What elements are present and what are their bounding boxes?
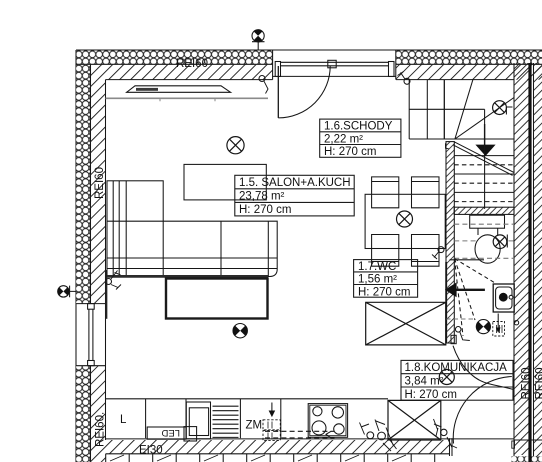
staircase: mid landing line — [409, 108, 484, 110]
entry door jamb lines — [450, 438, 453, 456]
washbasin outer rect — [493, 284, 514, 312]
svg-text:H: 270 cm: H: 270 cm — [405, 389, 457, 401]
kitchen dashed boxes — [263, 420, 280, 441]
washbasin inner bowl — [496, 287, 512, 309]
switch at left window — [106, 271, 122, 290]
staircase: direction arrow line — [484, 124, 486, 146]
small pipe circle on right wall — [514, 321, 518, 325]
svg-text:1,56 m²: 1,56 m² — [358, 274, 397, 286]
lamp WC — [493, 235, 507, 249]
wall right: outer hatch strip — [534, 63, 542, 462]
staircase: winder diagonal 1 — [455, 80, 473, 139]
kitchen divider 1 — [145, 399, 147, 438]
junction point symbol top — [252, 30, 265, 51]
switch at balcony door left jamb — [259, 76, 268, 94]
wall bottom: brick row top line — [106, 453, 450, 455]
staircase: lower flight center line — [484, 139, 486, 209]
balcony window: left jamb block — [275, 62, 280, 77]
svg-text:1.8.KOMUNIKACJA: 1.8.KOMUNIKACJA — [405, 362, 508, 374]
sofa body outline with rounded corner — [107, 221, 277, 276]
wall bottom: top edge line — [106, 438, 515, 440]
left window: top mullion block — [88, 304, 95, 310]
radiator dark strip — [136, 88, 158, 91]
wall left: hatch band upper — [91, 80, 106, 304]
dining chair bottom-right — [412, 235, 440, 267]
dining table — [365, 194, 445, 248]
wall right: outer hatch strip edge — [533, 63, 535, 462]
wall top: bubble/hatch separator line — [76, 63, 542, 65]
dining chair top-right — [412, 177, 440, 208]
label box 1.7 WC — [354, 260, 418, 298]
wall top: insulation bubble band left part — [76, 51, 273, 65]
bar stool scribble 2 — [434, 419, 442, 436]
balcony window: glazing double lines — [281, 62, 389, 66]
hob inner rect — [310, 405, 346, 436]
staircase: riser line 2 — [443, 80, 445, 139]
svg-text:H: 270 cm: H: 270 cm — [324, 146, 376, 158]
wall right: hatch band inner — [514, 63, 529, 455]
lamp stairs — [493, 101, 507, 115]
WC bowl neck — [478, 228, 498, 235]
kitchen divider 3 — [239, 399, 241, 438]
wall right: bottom corner line — [514, 439, 542, 441]
svg-text:REI60: REI60 — [94, 167, 106, 199]
svg-text:REI60: REI60 — [535, 368, 542, 400]
left window: glazing double lines — [89, 309, 93, 360]
lamp corridor — [439, 370, 454, 385]
left window: bottom cap line — [76, 365, 106, 367]
wall right: bottom jamb rect — [512, 441, 515, 448]
kitchen sink outer — [186, 402, 210, 439]
staircase: direction arrow head — [475, 145, 495, 156]
wall bottom: brick diagonal marks — [110, 455, 406, 461]
wall left: hatch band lower — [91, 366, 106, 462]
svg-text:REI60.: REI60. — [95, 412, 107, 447]
svg-text:3,84 m²: 3,84 m² — [405, 376, 444, 388]
side table above sofa — [184, 164, 266, 200]
hob burner 3 — [312, 421, 326, 435]
entry door hinge circle — [441, 429, 447, 435]
wall left: inner edge line — [105, 80, 107, 440]
left window: bottom mullion block — [88, 361, 95, 366]
kitchen dashed duct lines — [265, 431, 335, 438]
beam tick marks — [160, 98, 215, 101]
kitchen LED box — [147, 427, 186, 439]
sofa chaise inner lines — [113, 181, 126, 277]
balcony door leaf — [277, 66, 279, 118]
kitchen divider 2 — [185, 399, 187, 438]
sofa seat divider — [220, 221, 222, 276]
sofa chaise outer — [107, 181, 163, 277]
sofa base front line — [107, 268, 277, 270]
balcony window: inner sill line — [273, 75, 396, 77]
hob outer rect — [308, 404, 347, 438]
beam grey line over living room — [106, 97, 269, 99]
wall top: insulation bubble band right part — [396, 51, 542, 65]
staircase: handrail double diagonal — [453, 142, 514, 176]
junction point symbol living room — [233, 324, 247, 338]
svg-text:1.7.WC: 1.7.WC — [358, 261, 396, 273]
wall left: outer edge line — [75, 50, 77, 462]
hob burner 4 — [334, 424, 344, 434]
label box 1.5 SALON — [235, 175, 354, 216]
svg-text:H: 270 cm: H: 270 cm — [358, 286, 410, 298]
hob burner 1 — [313, 407, 322, 416]
dining chair bottom-left — [372, 235, 399, 267]
svg-text:ZM: ZM — [246, 420, 263, 432]
wall top: hatch band left part — [91, 64, 273, 79]
balcony door swing arc — [278, 66, 330, 118]
lamp dining — [397, 211, 413, 227]
svg-text:1.5. SALON+A.KUCH: 1.5. SALON+A.KUCH — [239, 177, 351, 189]
WC cistern — [470, 215, 505, 228]
corridor down arrow — [497, 314, 499, 331]
staircase: lower flight solid steps — [454, 156, 514, 193]
wall top: hatch band right part — [396, 64, 542, 79]
corridor arrow line — [456, 289, 485, 291]
staircase: lamp line to wall — [506, 107, 512, 115]
sofa seat front line — [107, 257, 277, 259]
label box 1.8 KOMUNIKACJA — [401, 360, 513, 400]
WC bottom line — [450, 259, 485, 261]
svg-text:EI30: EI30 — [139, 445, 163, 457]
label box 1.6 SCHODY — [320, 119, 401, 157]
staircase: riser line 1 — [426, 80, 428, 139]
entry arc 2 — [453, 377, 512, 444]
balcony opening jamb edge lines — [273, 50, 396, 80]
wall right: bottom bubble band — [512, 456, 542, 462]
left window: inner thick sill segment — [105, 270, 107, 319]
wall left: insulation bubble band upper — [76, 64, 91, 303]
wall right: thick black line — [528, 63, 531, 455]
WC bowl — [475, 235, 500, 263]
island crossed box — [366, 302, 446, 345]
switch at balcony door right jamb — [398, 72, 411, 85]
kitchen dashed box glyphs — [268, 422, 272, 440]
svg-text:H: 270 cm: H: 270 cm — [239, 204, 291, 216]
sofa right armrest line — [267, 221, 269, 276]
hob burner 2 — [332, 407, 343, 418]
svg-text:L: L — [120, 414, 127, 426]
svg-text:REI60: REI60 — [521, 368, 533, 400]
staircase: winder diagonal 2 through lamp — [455, 98, 514, 140]
svg-text:23,78 m²: 23,78 m² — [239, 191, 285, 203]
radiator under top wall — [127, 86, 231, 93]
corridor-left wall strip end rects — [451, 335, 456, 343]
corridor arrow head — [445, 282, 457, 297]
sofa thick bottom edge — [107, 275, 268, 278]
WC top wall band — [454, 207, 514, 214]
balcony window: center mullion block — [328, 60, 336, 68]
dining chair top-left — [372, 177, 399, 208]
left window: top cap line — [76, 303, 106, 305]
WC lamp tick — [506, 235, 508, 248]
kitchen sink inner — [189, 408, 208, 436]
lamp living room — [227, 137, 244, 154]
svg-text:1.6.SCHODY: 1.6.SCHODY — [324, 121, 393, 133]
kitchen ZM arrow — [271, 403, 273, 414]
staircase: landing right edge — [484, 109, 486, 139]
staircase: left edge — [408, 80, 410, 139]
svg-text:LED: LED — [161, 427, 180, 438]
WC dashed service lines — [454, 224, 514, 258]
corridor-left wall strip — [446, 142, 454, 343]
wall right: inner edge line — [513, 63, 515, 456]
switch at dining — [432, 247, 444, 259]
kitchen small corner box — [184, 427, 197, 441]
svg-text:REI60: REI60 — [176, 58, 208, 70]
wall top: inner edge line — [106, 79, 515, 81]
switch near entry — [447, 437, 457, 448]
washbasin drain black dot — [499, 293, 508, 302]
wall bottom: brick joints — [106, 454, 435, 462]
junction point symbol left wall — [58, 286, 76, 298]
wall left: bubble/hatch separator line — [90, 64, 92, 462]
svg-text:2,22 m²: 2,22 m² — [324, 133, 363, 145]
kitchen divider 4 — [280, 399, 282, 438]
switch in corridor — [455, 327, 469, 341]
stair wall hook mark — [446, 143, 449, 149]
wall bottom: hatch band — [106, 440, 450, 454]
staircase: lower flight dashed steps — [454, 165, 514, 202]
junction point symbol corridor — [476, 320, 490, 334]
corridor meter box glyphs — [497, 325, 503, 333]
kitchen counter top line — [106, 398, 389, 400]
corridor dashed meter box — [493, 322, 505, 337]
kitchen tall unit crossed box — [388, 400, 441, 440]
wall right: thick line over bubbles — [528, 455, 531, 462]
kitchen duct arrow tip — [326, 431, 331, 438]
coffee table black rect — [166, 279, 268, 319]
wall left: insulation bubble band lower — [76, 366, 91, 462]
kitchen drainer lines — [213, 406, 239, 437]
WC door headroom dashed rays — [455, 259, 497, 336]
balcony window: right jamb block — [389, 62, 395, 77]
bar stool scribble 1 — [367, 432, 374, 439]
washbasin tap knob — [509, 295, 513, 299]
staircase: winder bottom line — [409, 138, 514, 140]
entry arc 1 — [453, 346, 514, 390]
wall top: outer edge line — [76, 49, 542, 51]
